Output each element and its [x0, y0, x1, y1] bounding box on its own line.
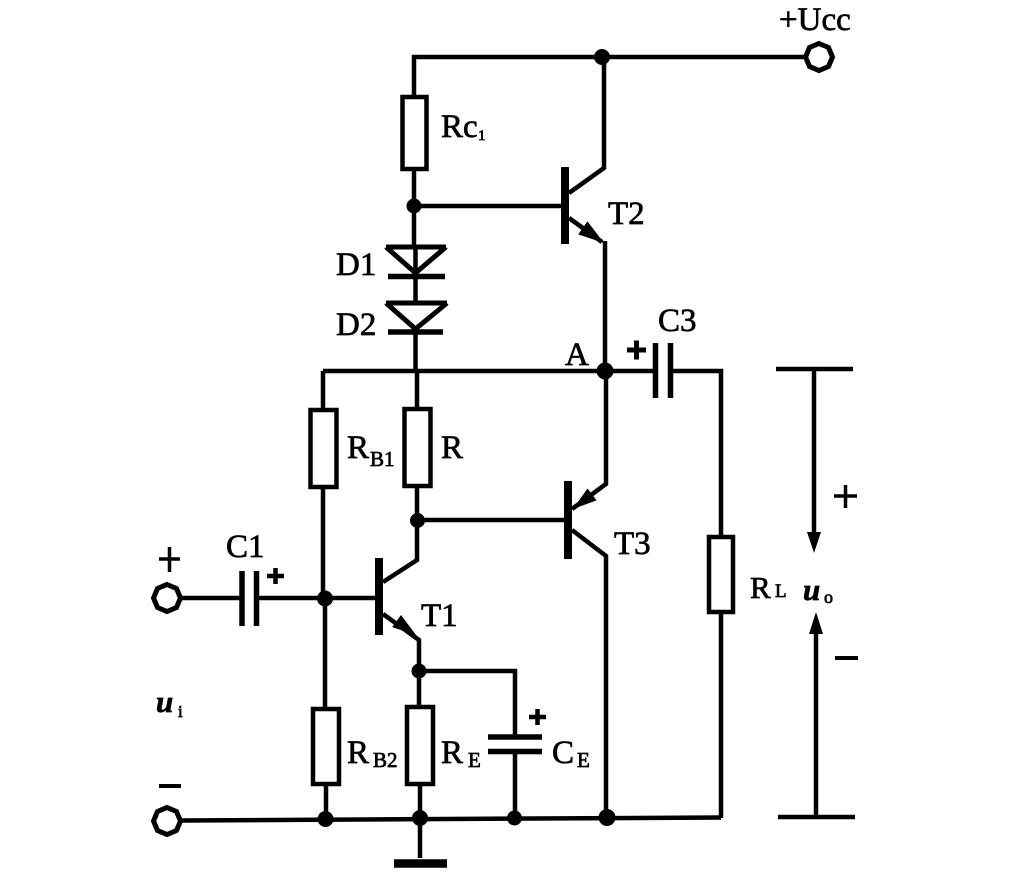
label D1	[336, 247, 376, 283]
measurement top bar	[776, 367, 853, 372]
label R	[441, 430, 463, 466]
transistor T2	[561, 57, 605, 371]
plus above input terminal	[159, 547, 180, 572]
wire RB2 top	[323, 599, 328, 709]
svg-text:B2: B2	[373, 748, 398, 772]
wire CE to rail	[513, 754, 518, 818]
junction T1 emitter / RE / CE	[412, 664, 427, 679]
resistor RE	[407, 707, 433, 784]
junction top rail / T2 collector	[594, 49, 610, 65]
node A junction	[597, 363, 614, 380]
wire node-A horizontal	[323, 369, 653, 374]
resistor Rc1	[403, 97, 427, 169]
wire input terminal to C1	[180, 596, 240, 601]
label +Ucc	[779, 2, 851, 38]
svg-text:C3: C3	[658, 303, 697, 339]
svg-text:C1: C1	[226, 529, 265, 565]
svg-text:T1: T1	[421, 598, 458, 634]
svg-text:R: R	[347, 735, 369, 771]
label RB2	[347, 735, 398, 772]
svg-text:T3: T3	[614, 526, 651, 562]
wire C1 to base junction	[259, 596, 325, 601]
wire D2 to node wire	[413, 329, 418, 371]
svg-text:E: E	[577, 748, 590, 772]
label uo	[803, 572, 833, 607]
plus of C1	[267, 568, 284, 584]
label RE	[441, 735, 481, 772]
svg-text:R: R	[347, 430, 369, 466]
wire left column down to RB1	[321, 371, 326, 410]
bottom rail wire	[180, 818, 721, 821]
svg-text:u: u	[803, 572, 820, 607]
capacitor C1	[242, 571, 257, 626]
junction RB2 at rail	[318, 811, 334, 827]
svg-text:D2: D2	[336, 307, 376, 343]
label T1	[421, 598, 458, 634]
wire C3 to RL	[673, 371, 721, 537]
wire D1 to D2	[413, 247, 418, 303]
svg-text:T2: T2	[608, 196, 645, 232]
junction CE at rail	[507, 811, 522, 826]
terminal input bottom	[154, 808, 181, 835]
wire RB2 bottom to rail	[324, 784, 329, 819]
resistor R	[405, 409, 431, 486]
wire R bottom to junction	[415, 486, 420, 521]
diode D2	[386, 303, 447, 332]
resistor RB2	[313, 709, 339, 784]
label ui	[156, 684, 183, 721]
svg-text:C: C	[552, 735, 574, 771]
label T3	[614, 526, 651, 562]
wire Rc1 bottom to D1	[412, 169, 417, 247]
wire RB1 to input junction	[321, 487, 326, 599]
svg-text:R: R	[441, 735, 463, 771]
junction input / RB1 / RB2 / T1 base	[317, 591, 333, 607]
wire RL bottom to rail	[719, 612, 724, 818]
junction T3 collector at rail	[599, 809, 616, 826]
transistor T3	[564, 371, 606, 817]
transistor T1	[375, 521, 419, 671]
svg-text:R: R	[441, 430, 463, 466]
minus of uo	[835, 656, 858, 660]
measurement up arrow	[809, 612, 823, 817]
svg-text:B1: B1	[370, 447, 395, 471]
ground stem	[418, 818, 423, 858]
junction RE at rail	[412, 810, 428, 826]
label C1	[226, 529, 265, 565]
junction Rc1 / T2 base / D1	[407, 199, 422, 214]
svg-text:D1: D1	[336, 247, 376, 283]
svg-text:L: L	[775, 581, 787, 602]
wire T3 base	[417, 518, 564, 523]
plus of uo	[834, 485, 857, 508]
label Rc1	[441, 109, 486, 145]
label RB1	[347, 430, 395, 471]
plus of CE	[529, 709, 546, 725]
svg-text:o: o	[824, 587, 833, 607]
junction R / T1 collector / T3 base	[410, 513, 425, 528]
resistor RB1	[311, 410, 337, 487]
svg-text:u: u	[156, 684, 173, 719]
label T2	[608, 196, 645, 232]
measurement bottom bar	[778, 815, 855, 820]
diode D1	[386, 247, 446, 277]
label node A	[565, 337, 589, 373]
svg-text:E: E	[468, 748, 481, 772]
wire T2 base	[414, 204, 561, 209]
label CE	[552, 735, 590, 772]
svg-text:1: 1	[478, 128, 486, 144]
minus below ui	[159, 784, 181, 788]
measurement down arrow	[807, 369, 821, 553]
wire T1 base	[325, 596, 375, 601]
label C3	[658, 303, 697, 339]
svg-text:Rc: Rc	[441, 109, 478, 145]
svg-text:R: R	[750, 570, 771, 605]
terminal input top	[154, 585, 181, 612]
capacitor C3	[656, 343, 671, 398]
capacitor CE	[488, 737, 542, 752]
label RL	[750, 570, 787, 605]
wire RE bottom to rail	[418, 784, 423, 818]
svg-text:A: A	[565, 337, 589, 373]
wire R top	[415, 371, 420, 409]
wire top supply rail	[414, 57, 806, 97]
svg-text:i: i	[178, 702, 183, 721]
ground bar	[394, 859, 447, 868]
resistor RL	[709, 537, 733, 612]
plus of C3	[627, 341, 646, 360]
wire RE top	[417, 671, 422, 707]
label D2	[336, 307, 376, 343]
svg-text:+Ucc: +Ucc	[779, 2, 851, 38]
wire emitter junction to CE	[419, 671, 515, 737]
terminal +Ucc	[806, 44, 833, 71]
